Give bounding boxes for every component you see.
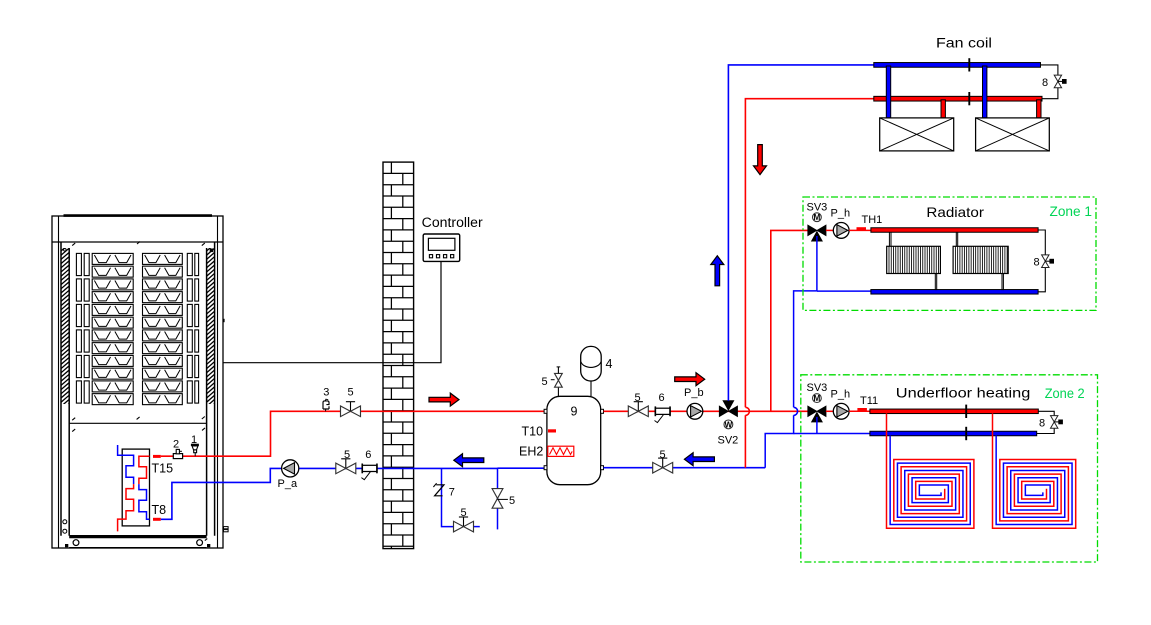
svg-text:5: 5 xyxy=(344,449,350,461)
svg-text:6: 6 xyxy=(365,449,371,461)
component 2 flow switch xyxy=(173,449,182,458)
svg-text:Controller: Controller xyxy=(422,215,484,230)
wire: blue return main from branch tee to pump P_a and heat exchanger xyxy=(161,468,498,519)
zone 2 boundary box xyxy=(801,375,1098,562)
radiator 1 xyxy=(887,232,941,290)
wire: red fan coil return drop xyxy=(745,99,873,468)
underfloor loop 2 red spiral xyxy=(993,413,1076,528)
svg-text:SV2: SV2 xyxy=(718,435,739,447)
fan coil unit 1 xyxy=(880,118,954,151)
heat pump fan grille xyxy=(76,253,198,404)
component 3 air vent xyxy=(323,399,329,411)
svg-text:5: 5 xyxy=(635,392,641,404)
heat exchanger coil xyxy=(122,449,149,526)
wire: blue return main from riser corner to tank xyxy=(604,467,766,469)
panel corner marks xyxy=(72,242,228,541)
zone 1 boundary box xyxy=(803,197,1096,310)
pump P_h zone1 xyxy=(833,223,849,239)
svg-text:Zone 1: Zone 1 xyxy=(1050,204,1093,219)
underfloor bypass with valve 8 zone2 xyxy=(1037,411,1063,433)
pump P_h zone2 xyxy=(833,403,849,419)
wire: blue thin link to radiator return header xyxy=(817,290,872,292)
break marks on underfloor headers xyxy=(965,405,967,441)
check valve 6 after tank xyxy=(655,408,670,414)
fan coil blue supply header xyxy=(874,63,1041,68)
svg-text:T15: T15 xyxy=(152,462,174,476)
sensor T15 tick xyxy=(153,455,161,458)
svg-text:5: 5 xyxy=(542,376,548,388)
svg-text:EH2: EH2 xyxy=(519,445,543,459)
flow arrow red right before SV2 xyxy=(675,373,705,386)
flow arrow blue up on fan coil riser xyxy=(711,256,724,286)
expansion vessel 4 xyxy=(581,346,602,396)
heater EH2 xyxy=(548,446,574,456)
wire: red pump to underfloor header xyxy=(849,410,870,412)
radiator red supply header xyxy=(871,228,1038,233)
radiator blue return header xyxy=(871,290,1038,295)
svg-text:5: 5 xyxy=(461,507,467,519)
svg-text:M: M xyxy=(813,394,820,403)
svg-text:6: 6 xyxy=(659,392,665,404)
svg-text:7: 7 xyxy=(449,486,455,498)
svg-text:Zone 2: Zone 2 xyxy=(1045,386,1085,401)
pump P_b xyxy=(687,403,703,419)
svg-text:SV3: SV3 xyxy=(807,382,828,394)
controller xyxy=(423,234,460,261)
svg-text:1: 1 xyxy=(191,434,197,446)
sensor TH1 tick xyxy=(857,227,867,230)
wire: blue zone1 return drop xyxy=(765,291,817,468)
svg-text:9: 9 xyxy=(571,405,578,419)
wire: red supply from heat exchanger T15 to riser xyxy=(161,411,544,456)
svg-text:P_b: P_b xyxy=(684,387,704,399)
pump P_a xyxy=(282,460,299,477)
wire: red SV3 to pump zone1 xyxy=(826,229,833,231)
wire: red SV3 to pump zone2 xyxy=(826,410,833,412)
svg-text:M: M xyxy=(813,213,820,222)
fan coil red return header xyxy=(874,96,1042,101)
svg-text:Radiator: Radiator xyxy=(926,204,984,220)
three-way valve SV3 zone1 xyxy=(808,225,817,235)
wire: blue SV3 zone1 bottom port drop xyxy=(816,236,818,291)
svg-text:W: W xyxy=(725,420,733,429)
flow arrow red right near wall xyxy=(429,393,459,406)
wire: red upper half of right coil xyxy=(139,456,150,484)
svg-text:3: 3 xyxy=(323,386,329,398)
motor M of SV3 zone2 xyxy=(813,394,822,403)
valve 5 after tank xyxy=(637,402,639,412)
svg-text:P_a: P_a xyxy=(278,478,298,490)
svg-text:2: 2 xyxy=(173,439,179,451)
buffer tank 9 xyxy=(544,396,603,484)
wire: blue fan coil supply riser from SV2 top xyxy=(728,65,873,401)
svg-text:T11: T11 xyxy=(860,395,878,407)
svg-text:P_h: P_h xyxy=(831,208,851,220)
svg-text:Underfloor heating: Underfloor heating xyxy=(896,385,1031,401)
wire: red zone1 supply riser xyxy=(771,230,808,411)
underfloor red supply header xyxy=(870,409,1038,414)
radiator 2 xyxy=(953,232,1008,290)
wire: controller signal cable xyxy=(223,261,441,362)
svg-text:5: 5 xyxy=(660,449,666,461)
svg-text:4: 4 xyxy=(606,357,613,371)
svg-text:TH1: TH1 xyxy=(862,214,883,226)
wire: red pump to radiator header xyxy=(849,229,871,231)
flow arrow blue left near wall xyxy=(454,454,484,467)
svg-text:P_h: P_h xyxy=(831,388,851,400)
three-way valve SV3 zone2 xyxy=(808,406,817,416)
check valve 6 on blue return xyxy=(362,465,377,471)
svg-text:5: 5 xyxy=(348,387,354,399)
wire: blue stub after drain valve xyxy=(473,526,480,528)
sensor T10 tick xyxy=(548,429,556,432)
tundish symbol 7 xyxy=(433,483,444,496)
motor M of SV3 zone1 xyxy=(813,213,822,222)
underfloor loop 1 blue spiral xyxy=(890,436,970,525)
svg-text:Fan coil: Fan coil xyxy=(936,35,992,51)
svg-text:8: 8 xyxy=(1042,77,1048,89)
break marks on fan coil headers xyxy=(968,58,970,105)
flow arrow red down on fan coil return xyxy=(754,145,767,175)
wire: blue drain branch with tundish xyxy=(442,468,454,526)
wire: blue lower half of right coil xyxy=(139,484,150,519)
valve 5 on blue return xyxy=(345,459,347,469)
svg-text:SV3: SV3 xyxy=(807,201,828,213)
svg-text:8: 8 xyxy=(1039,418,1045,430)
heat pump hatched side strips xyxy=(61,244,215,583)
fan coil unit drops xyxy=(886,66,1041,118)
valve 5 on return near tank xyxy=(662,458,664,468)
svg-text:5: 5 xyxy=(509,495,515,507)
wire: blue vent branch xyxy=(497,468,499,529)
fan coil unit 2 xyxy=(976,118,1050,151)
valve 5 on red supply xyxy=(350,402,352,412)
underfloor loop 1 red spiral xyxy=(887,413,974,528)
motor W of SV2 xyxy=(724,420,733,429)
wire: blue return tank outlet to wall side xyxy=(498,467,545,469)
wire: blue zone2 return header link xyxy=(794,433,870,435)
brick wall xyxy=(383,162,414,548)
fan coil bypass pipe with valve 8 xyxy=(1041,65,1067,99)
three-way valve SV2 xyxy=(719,406,728,416)
wire: red supply from tank to SV2 and zones xyxy=(604,410,809,412)
wire: red lower half of left coil xyxy=(118,484,134,531)
vent valve 5 vertical xyxy=(492,489,508,509)
sensor T11 tick xyxy=(857,408,867,411)
sensor T8 tick xyxy=(153,518,161,521)
drain valve 5 xyxy=(463,517,465,527)
underfloor loop 2 blue spiral xyxy=(996,436,1072,525)
wire: blue SV3 zone2 bottom port drop xyxy=(816,417,818,434)
svg-text:T8: T8 xyxy=(152,503,167,517)
underfloor blue return header xyxy=(870,431,1037,436)
heat pump unit cabinet frame xyxy=(52,216,223,548)
safety valve 5 at tank top xyxy=(551,367,562,397)
svg-text:T10: T10 xyxy=(522,425,544,439)
heat pump base xyxy=(66,537,210,548)
radiator bypass with valve 8 zone1 xyxy=(1038,230,1053,292)
component 1 air purger xyxy=(191,445,199,456)
svg-text:8: 8 xyxy=(1034,257,1040,269)
wire: blue inlet to left coil xyxy=(118,445,134,484)
flow arrow blue left near tank xyxy=(684,453,714,466)
